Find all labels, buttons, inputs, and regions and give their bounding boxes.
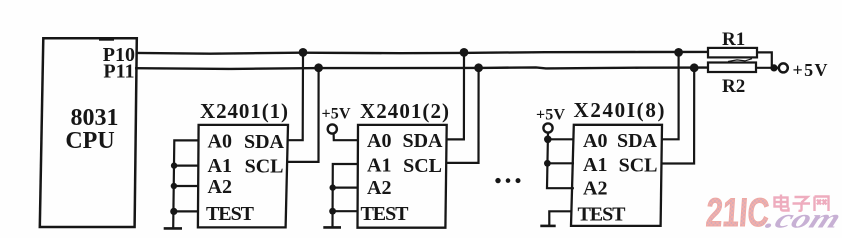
svg-text:CPU: CPU — [65, 128, 114, 154]
watermark .com — [761, 204, 842, 234]
junction A1 (U4) — [544, 160, 551, 167]
wire SCL riser (U2) — [286, 68, 318, 162]
junction A1 (U2) — [171, 162, 177, 168]
wire A1 stub (U2) — [174, 165, 198, 167]
wire A1 rail (U3) — [333, 164, 358, 227]
scan crease mark — [728, 59, 752, 62]
watermark 电子网 glyphs — [775, 195, 829, 212]
ground tick (U3) — [323, 226, 341, 229]
resistor R2 body — [708, 63, 756, 73]
wire A0 rail (U2) — [173, 140, 198, 228]
resistor R1 body — [708, 48, 757, 58]
svg-text:SDA: SDA — [617, 130, 658, 152]
watermark 21IC — [705, 191, 771, 235]
svg-text:.com: .com — [761, 204, 842, 234]
junction TEST (U3) — [329, 208, 336, 215]
wire SDA riser (U4) — [662, 52, 679, 139]
junction SCL1 on bus — [314, 63, 323, 72]
power terminal circle (U3) — [328, 124, 337, 133]
svg-text:A2: A2 — [367, 177, 391, 199]
glyph 子 — [793, 197, 811, 211]
IC U4 X2401(8) box — [571, 125, 662, 226]
junction SDA1 on bus — [299, 48, 308, 57]
junction TEST (U2) — [170, 208, 177, 215]
wire A0 stub (U4) — [548, 138, 574, 140]
CPU U1 8031 box — [40, 38, 137, 227]
junction A0 (U4) — [544, 136, 552, 144]
svg-text:A0: A0 — [367, 130, 391, 152]
wire A2 stub (U2) — [174, 185, 198, 187]
CPU top edge notch — [99, 39, 114, 41]
svg-text:SCL: SCL — [403, 155, 442, 177]
wire TEST stub (U3) — [333, 210, 358, 212]
svg-text:SDA: SDA — [244, 131, 285, 153]
wire SDA riser (U3) — [446, 52, 464, 139]
svg-text:SCL: SCL — [619, 154, 658, 176]
wire TEST stub (U2) — [174, 210, 198, 212]
ellipsis dots — [495, 178, 500, 183]
junction A2 (U2) — [171, 183, 177, 189]
power terminal circle (U4) — [543, 123, 552, 132]
wire +5V to A0 (U3) — [334, 134, 358, 141]
svg-text:A2: A2 — [583, 178, 607, 200]
svg-text:21IC: 21IC — [705, 191, 771, 235]
svg-text:TEST: TEST — [361, 203, 410, 225]
svg-text:A1: A1 — [583, 154, 607, 176]
wire SCL bus (P11) — [135, 67, 708, 69]
junction A2 (U3) — [330, 184, 336, 190]
svg-text:A2: A2 — [208, 176, 232, 198]
glyph 电 — [775, 195, 789, 211]
svg-text:X2401(1): X2401(1) — [200, 99, 288, 123]
wire SCL riser (U4) — [662, 68, 694, 164]
terminal circle +5V — [779, 63, 788, 72]
wire SCL riser (U3) — [446, 68, 479, 163]
glyph 网 — [815, 197, 829, 212]
wire SDA riser (U2) — [287, 52, 303, 140]
wire A2 stub (U3) — [333, 187, 358, 189]
svg-text:A0: A0 — [208, 131, 232, 153]
svg-text:+5V: +5V — [793, 60, 828, 80]
ground tick (U2) — [164, 227, 182, 230]
svg-text:+5V: +5V — [536, 106, 565, 123]
wire +5V rail A0-A2 (U4) — [547, 133, 574, 189]
wire R1 to +5V node — [757, 52, 772, 67]
junction SDA2 on bus — [460, 48, 469, 57]
wire R2 to +5V node — [756, 67, 779, 69]
svg-text:X2401(2): X2401(2) — [360, 99, 449, 123]
svg-text:SDA: SDA — [402, 130, 443, 152]
wire SDA bus (P10) — [136, 52, 709, 54]
svg-text:TEST: TEST — [206, 203, 255, 225]
svg-text:SCL: SCL — [245, 156, 284, 178]
svg-text:A1: A1 — [367, 154, 391, 176]
junction SDA8 on bus — [674, 48, 683, 57]
junction SCL2 on bus — [474, 63, 483, 72]
ground tick (U4) — [540, 225, 555, 228]
IC U2 X2401(1) box — [198, 125, 288, 227]
svg-text:P11: P11 — [103, 61, 134, 83]
svg-text:TEST: TEST — [578, 203, 627, 225]
wire TEST to ground (U4) — [549, 211, 571, 225]
junction SCL8 on bus — [690, 63, 699, 72]
svg-text:R2: R2 — [722, 76, 745, 97]
junction +5V node — [770, 64, 777, 71]
svg-text:X240I(8): X240I(8) — [574, 98, 665, 122]
svg-text:A1: A1 — [208, 155, 232, 177]
svg-text:+5V: +5V — [322, 106, 351, 123]
svg-text:A0: A0 — [583, 130, 607, 152]
IC U3 X2401(2) box — [358, 125, 447, 228]
wire A1 stub (U4) — [547, 162, 574, 164]
